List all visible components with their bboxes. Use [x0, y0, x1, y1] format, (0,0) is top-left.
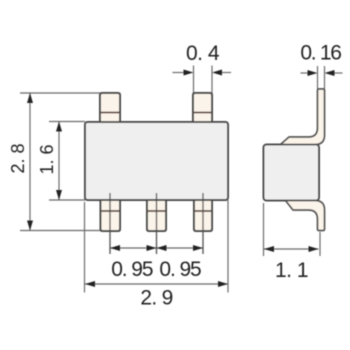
svg-text:0. 95: 0. 95: [159, 258, 201, 281]
svg-text:0. 95: 0. 95: [111, 258, 153, 281]
svg-text:0. 16: 0. 16: [300, 42, 341, 65]
svg-text:2. 9: 2. 9: [140, 287, 172, 310]
svg-text:1. 1: 1. 1: [275, 259, 308, 282]
svg-text:0. 4: 0. 4: [186, 42, 220, 65]
svg-text:2. 8: 2. 8: [8, 143, 28, 173]
svg-text:1. 6: 1. 6: [37, 144, 57, 174]
